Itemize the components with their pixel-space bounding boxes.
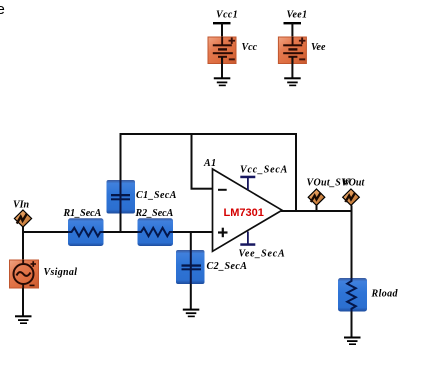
wire op-amp output [281,210,353,212]
svg-text:Vsignal: Vsignal [44,267,78,278]
svg-text:R1_SecA: R1_SecA [63,208,102,219]
dc source Vee [278,37,306,64]
svg-text:R2_SecA: R2_SecA [135,208,174,219]
dc source Vcc [208,37,236,64]
power pin bar Vee [240,232,255,246]
svg-text:C1_SecA: C1_SecA [136,190,177,201]
ground (Vsignal) [15,315,32,324]
probe VOut [343,189,360,205]
resistor R2 [138,218,174,246]
op-amp - input symbol [218,189,227,191]
junction C2 branch [190,231,192,233]
wire Vee1 bar to battery [291,23,293,46]
svg-text:VOut: VOut [342,178,365,189]
svg-text:C2_SecA: C2_SecA [207,261,248,272]
probe VIn [14,210,31,227]
wire R2 to op-amp + input [173,231,214,233]
svg-text:LM7301: LM7301 [224,207,264,219]
wire inverting branch vertical [191,133,193,190]
wire feedback left vertical (through C1) [120,133,122,232]
ground (Vcc) [214,77,231,86]
svg-text:Vcc_SecA: Vcc_SecA [240,165,288,176]
node terminal bar Vee1 [284,22,302,24]
wire input net to R1 [22,231,70,233]
wire feedback right vertical [295,134,297,211]
wire Rload to ground [351,312,353,338]
svg-text:A1: A1 [203,158,216,169]
svg-text:Vcc: Vcc [242,42,258,53]
wire battery Vcc to ground [221,57,223,78]
probe VOut_SW [308,189,325,205]
svg-text:Vee1: Vee1 [287,10,308,21]
wire output to Rload [351,205,353,278]
ground (Vee) [284,77,301,86]
svg-text:Vee: Vee [311,42,326,53]
wire probe VOut_SW stem [316,205,318,211]
wire R1 to R2 [104,231,139,233]
op-amp + input symbol [218,228,228,238]
capacitor C2 [176,250,205,284]
wire Vsignal to ground [22,288,24,316]
ground (Rload) [344,337,361,346]
svg-text:Vee_SecA: Vee_SecA [239,249,286,260]
wire to op-amp - input [191,188,214,190]
svg-text:VIn: VIn [13,200,30,211]
power pin bar Vcc [240,176,255,190]
node terminal bar Vcc1 [213,22,231,24]
wire feedback top [120,133,298,135]
wire battery Vee to ground [291,57,293,78]
svg-text:Rload: Rload [371,289,399,300]
svg-text:Vcc1: Vcc1 [216,10,238,21]
source Vsignal [10,260,39,288]
op-amp A1 triangle [213,169,283,251]
resistor Rload [338,278,367,312]
resistor R1 [68,218,104,246]
capacitor C1 [107,180,136,214]
svg-text:e: e [0,1,5,18]
wire junction to C2 and ground [190,232,192,309]
ground (C2) [183,309,200,318]
wire VIn probe to input net [22,227,24,261]
wire Vcc1 bar to battery [221,23,223,46]
